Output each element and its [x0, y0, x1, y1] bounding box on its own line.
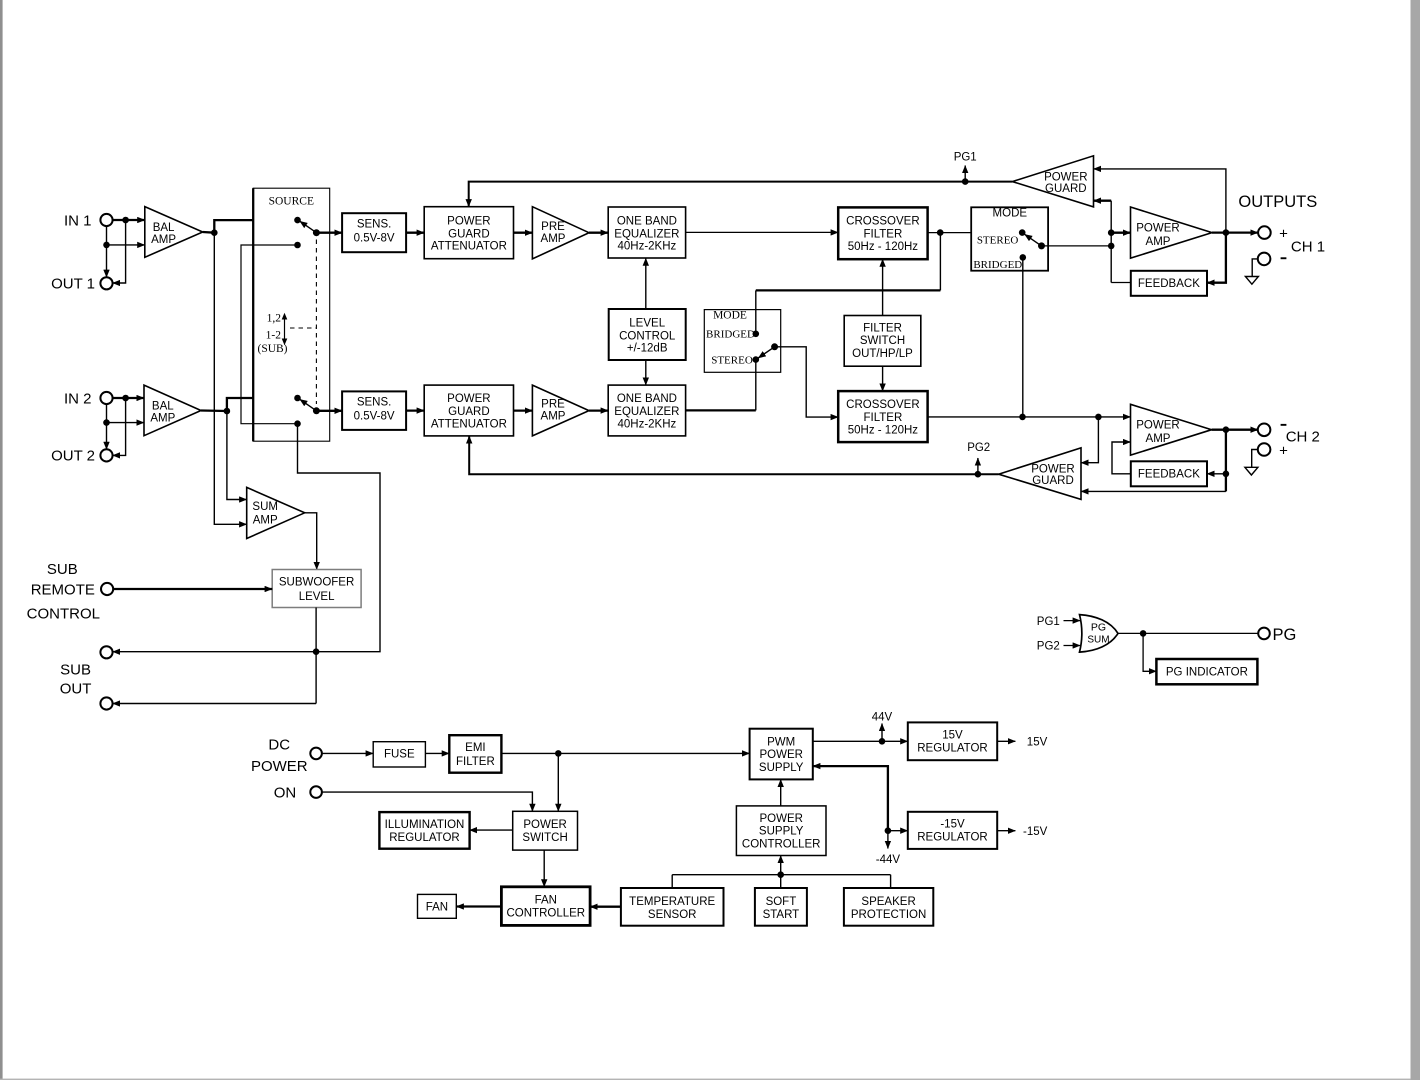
svg-text:OUT: OUT: [60, 681, 92, 698]
POWER SUPPLY CONTROLLER block: [736, 806, 826, 856]
wire filter switch to crossover 2: [882, 366, 884, 391]
vertical bus power amp 1 input: [1110, 201, 1112, 283]
label - CH2: [1281, 424, 1287, 426]
svg-text:MODE: MODE: [713, 310, 747, 322]
svg-text:AMP: AMP: [541, 233, 566, 245]
svg-text:AMP: AMP: [541, 411, 566, 423]
LEVEL CONTROL block: [609, 309, 686, 360]
svg-text:REMOTE: REMOTE: [31, 582, 95, 599]
MODE select box CH1: [971, 207, 1048, 270]
svg-text:15V: 15V: [1027, 737, 1048, 749]
svg-text:40Hz-2KHz: 40Hz-2KHz: [617, 418, 676, 430]
-44V tap arrow: [887, 831, 889, 849]
wire mode1 pivot to amp node: [1042, 245, 1112, 247]
op-amp PRE AMP 2: [532, 385, 589, 436]
POWER SWITCH block: [513, 811, 578, 850]
wire control bus to controller: [780, 856, 782, 875]
CROSSOVER FILTER CH1: [838, 207, 927, 259]
MODE select box CH2: [704, 310, 780, 373]
switch 2 contact position 1-2: [294, 420, 301, 427]
svg-text:ATTENUATOR: ATTENUATOR: [431, 241, 507, 253]
svg-text:BRIDGED: BRIDGED: [706, 329, 755, 341]
power guard CH1: [1012, 156, 1093, 207]
terminal ON: [310, 786, 322, 798]
wire IN1 to BAL AMP 1 upper input: [113, 219, 145, 221]
junction dot pa1 node upper: [1108, 229, 1115, 236]
wire subwoofer level output down: [315, 608, 317, 704]
wire power amp 2 output: [1212, 429, 1258, 431]
svg-text:FILTER: FILTER: [863, 322, 902, 334]
wire DC node to power switch: [557, 753, 559, 811]
terminal SUB OUT 1: [100, 646, 112, 658]
wire -15V output: [997, 830, 1015, 832]
wire power guard 1 to attenuator top (feedback): [469, 182, 1013, 207]
position arrow up-down: [284, 318, 286, 341]
terminal CH1 minus: [1258, 253, 1271, 266]
wire IN2 to BAL AMP 2 upper input: [113, 397, 144, 399]
wire PWM to 15V regulator: [813, 740, 908, 742]
wire crossover2 to power amp 2: [928, 416, 1131, 418]
svg-text:TEMPERATURE: TEMPERATURE: [629, 896, 715, 908]
junction dot 44V node: [879, 738, 886, 745]
svg-text:SUPPLY: SUPPLY: [759, 826, 804, 838]
wire BAL1 to source switch 1: [214, 220, 297, 233]
wire feedback2 to power amp 2 lower input: [1112, 442, 1131, 474]
power amp CH1: [1131, 207, 1213, 258]
svg-text:POWER: POWER: [447, 215, 490, 227]
svg-text:REGULATOR: REGULATOR: [389, 832, 460, 844]
svg-text:+: +: [1279, 442, 1288, 459]
mode1 contact BRIDGED: [1020, 254, 1027, 261]
wire down to OUT2: [106, 423, 108, 450]
TEMPERATURE SENSOR block: [621, 888, 724, 926]
CROSSOVER FILTER CH2: [838, 391, 927, 442]
svg-text:POWER: POWER: [447, 393, 490, 405]
svg-text:PG2: PG2: [967, 442, 990, 454]
mode2 contact STEREO: [753, 356, 760, 363]
svg-text:POWER: POWER: [1031, 464, 1074, 476]
dashed gang link horizontal: [290, 327, 316, 329]
wire level control to equalizer 1: [645, 258, 647, 309]
junction dot output2: [1223, 426, 1230, 433]
wire FUSE to EMI FILTER: [425, 752, 449, 754]
ground CH2: [1245, 467, 1258, 475]
terminal CH2 plus: [1258, 443, 1271, 456]
svg-text:1-2: 1-2: [266, 329, 282, 341]
PG INDICATOR block: [1156, 659, 1257, 684]
svg-text:ONE BAND: ONE BAND: [617, 393, 677, 405]
wire EMI to PWM supply: [501, 752, 749, 754]
SPEAKER PROTECTION block: [844, 888, 933, 926]
junction dot PG1 tap: [962, 178, 969, 185]
wire power amp 1 output: [1212, 231, 1258, 233]
mode1 lever: [1025, 234, 1042, 246]
wire down to OUT1: [106, 245, 108, 277]
wire mode1 bridged down to ch2 line: [1022, 257, 1024, 417]
switch 1 contact position 1: [294, 217, 301, 224]
svg-text:POWER: POWER: [1136, 223, 1179, 235]
FILTER SWITCH block: [844, 316, 921, 367]
junction dot output1: [1223, 229, 1230, 236]
wire output1 down to feedback: [1207, 233, 1226, 283]
wire switch 2 to SENS CH2: [316, 410, 342, 412]
svg-text:SUPPLY: SUPPLY: [759, 762, 804, 774]
svg-text:1,2: 1,2: [267, 312, 282, 324]
junction dot PG2 tap: [975, 471, 982, 478]
junction dot BAL2 output: [224, 408, 231, 415]
wire into feedback 2: [1207, 473, 1226, 475]
FUSE block: [373, 742, 425, 767]
junction dot -44V node: [885, 827, 892, 834]
svg-text:SUM: SUM: [252, 501, 278, 513]
wire feedback1 to input node: [1111, 282, 1131, 284]
wire to BAL AMP 2 lower input: [107, 422, 145, 424]
svg-text:POWER: POWER: [251, 758, 308, 775]
SENS block CH1: [342, 213, 406, 252]
junction dot bridged tap ch2: [1019, 414, 1026, 421]
wire bus to speaker protection: [890, 875, 892, 888]
svg-text:PG INDICATOR: PG INDICATOR: [1166, 667, 1248, 679]
terminal IN2: [100, 392, 112, 404]
wire attenuator1 to pre amp: [514, 232, 533, 234]
svg-text:GUARD: GUARD: [1045, 183, 1087, 195]
wire -44V node to PWM return: [813, 766, 888, 831]
switch 2 lever: [300, 399, 317, 411]
wire bus to soft start: [780, 875, 782, 888]
control bus horizontal: [672, 874, 890, 876]
svg-text:MODE: MODE: [993, 208, 1028, 220]
wire 15V output: [997, 740, 1015, 742]
left page edge: [0, 0, 3, 1080]
PG2 tap arrow: [977, 458, 979, 474]
svg-text:CONTROL: CONTROL: [619, 330, 676, 342]
svg-text:0.5V-8V: 0.5V-8V: [354, 411, 395, 423]
svg-text:AMP: AMP: [253, 514, 278, 526]
wire equalizer 2 output: [686, 409, 756, 411]
EMI FILTER block: [449, 735, 501, 773]
svg-text:FAN: FAN: [426, 901, 448, 913]
wire BAL2 to SUM AMP upper input: [227, 411, 247, 500]
svg-text:CONTROLLER: CONTROLLER: [506, 908, 585, 920]
terminal IN1: [100, 214, 112, 226]
FAN block: [418, 894, 457, 918]
SOURCE selector box: [253, 188, 330, 441]
SENS block CH2: [342, 391, 406, 430]
svg-text:LEVEL: LEVEL: [299, 591, 335, 603]
svg-text:SWITCH: SWITCH: [522, 832, 567, 844]
wire switch 1 to SENS CH1: [316, 232, 342, 234]
svg-text:+: +: [1279, 226, 1288, 243]
svg-text:0.5V-8V: 0.5V-8V: [354, 233, 395, 245]
wire BAL AMP 2 output: [201, 409, 227, 412]
svg-text:PRE: PRE: [541, 221, 565, 233]
svg-text:OUTPUTS: OUTPUTS: [1238, 193, 1317, 211]
wire SENS1 to attenuator: [406, 232, 424, 234]
svg-text:FEEDBACK: FEEDBACK: [1138, 278, 1200, 290]
junction dot DC node: [555, 750, 562, 757]
wire BAL1 to SUM AMP lower input: [214, 233, 246, 525]
op-amp PRE AMP 1: [532, 207, 589, 259]
wire -44V node to -15V regulator: [888, 830, 908, 832]
svg-text:50Hz - 120Hz: 50Hz - 120Hz: [848, 241, 919, 253]
wire CH2 plus to ground: [1252, 450, 1258, 468]
svg-text:40Hz-2KHz: 40Hz-2KHz: [617, 241, 676, 253]
svg-text:POWER: POWER: [1136, 420, 1179, 432]
wire power guard 2 to attenuator bottom (feedback): [469, 436, 998, 474]
wire output1 to power guard upper input: [1094, 169, 1226, 233]
switch 1 pivot: [313, 229, 320, 236]
svg-text:GUARD: GUARD: [1032, 475, 1074, 487]
switch 2 contact position 1: [294, 395, 301, 402]
junction dot PG node: [1140, 630, 1147, 637]
svg-text:SOURCE: SOURCE: [269, 196, 314, 208]
44V tap arrow: [881, 724, 883, 742]
svg-text:(SUB): (SUB): [257, 343, 287, 355]
svg-text:PG1: PG1: [1037, 616, 1060, 628]
wire temperature sensor to fan controller: [590, 906, 621, 908]
-15V REGULATOR block: [908, 812, 997, 849]
wire output2 down: [1225, 430, 1227, 492]
wire sub contact to subwoofer node: [298, 424, 381, 652]
wire SUB REMOTE to subwoofer level: [113, 588, 272, 590]
svg-text:PRE: PRE: [541, 399, 565, 411]
switch 2 pivot: [313, 407, 320, 414]
svg-text:PG: PG: [1273, 626, 1297, 644]
svg-text:SENS.: SENS.: [357, 218, 392, 230]
terminal SUB OUT 2: [100, 697, 112, 709]
svg-text:15V: 15V: [942, 730, 963, 742]
svg-text:FILTER: FILTER: [864, 412, 903, 424]
bottom page edge: [0, 1079, 1420, 1080]
wire to PG indicator: [1143, 633, 1156, 671]
wire controller to PWM: [780, 779, 782, 806]
svg-text:STEREO: STEREO: [711, 355, 753, 367]
svg-text:SUM: SUM: [1087, 634, 1109, 645]
wire PG2 to gate: [1064, 645, 1081, 647]
svg-text:DC: DC: [268, 736, 290, 753]
ONE BAND EQUALIZER CH2: [608, 385, 685, 436]
power amp CH2: [1131, 404, 1212, 455]
wire ON to power switch: [322, 792, 532, 811]
svg-text:FAN: FAN: [535, 895, 557, 907]
svg-text:44V: 44V: [872, 711, 893, 723]
svg-text:BRIDGED: BRIDGED: [973, 259, 1022, 271]
junction dot IN1 split: [122, 217, 129, 224]
svg-text:POWER: POWER: [1044, 172, 1087, 184]
wire loop-through IN2 to OUT2: [113, 398, 126, 455]
svg-text:STEREO: STEREO: [977, 234, 1019, 246]
svg-text:REGULATOR: REGULATOR: [917, 743, 988, 755]
junction dot sub out node: [313, 648, 320, 655]
wire bridged2 to crossover1 output (horizontal): [756, 289, 941, 291]
wire filter switch to crossover 1: [882, 259, 884, 315]
svg-text:EMI: EMI: [465, 742, 485, 754]
svg-text:-15V: -15V: [940, 819, 965, 831]
svg-text:FILTER: FILTER: [864, 229, 903, 241]
dashed gang link vertical: [315, 240, 317, 405]
junction dot pa1 node lower: [1108, 243, 1115, 250]
wire PG1 to gate: [1064, 620, 1081, 622]
svg-text:SOFT: SOFT: [766, 896, 797, 908]
wire fan controller to fan: [456, 905, 501, 907]
SOFT START block: [755, 888, 807, 926]
op-amp SUM AMP: [247, 487, 305, 538]
svg-text:CH 1: CH 1: [1291, 239, 1325, 256]
svg-text:-15V: -15V: [1023, 826, 1048, 838]
svg-text:PG: PG: [1091, 621, 1106, 633]
junction dot control bus: [777, 871, 784, 878]
svg-text:FILTER: FILTER: [456, 756, 495, 768]
svg-text:PROTECTION: PROTECTION: [851, 909, 926, 921]
svg-text:CONTROLLER: CONTROLLER: [742, 838, 821, 850]
terminal CH2 minus: [1258, 424, 1271, 437]
wire node to power guard 1 lower input: [1094, 200, 1112, 202]
svg-text:SUB: SUB: [47, 561, 78, 578]
svg-text:START: START: [763, 909, 800, 921]
junction dot IN2 split: [122, 395, 129, 402]
terminal CH1 plus: [1258, 226, 1271, 239]
FEEDBACK block CH2: [1131, 461, 1207, 486]
svg-text:BAL: BAL: [152, 401, 174, 413]
wire SENS2 to attenuator: [406, 409, 424, 411]
junction dot IN1 lower: [103, 242, 110, 249]
wire equalizer1 to crossover: [686, 231, 839, 233]
wire bus to temperature sensor: [671, 875, 673, 888]
svg-text:POWER: POWER: [759, 749, 802, 761]
mode2 contact BRIDGED: [753, 331, 760, 338]
mode1 contact STEREO: [1019, 229, 1026, 236]
junction dot crossover1 output: [937, 229, 944, 236]
15V REGULATOR block: [908, 722, 997, 760]
svg-text:ON: ON: [274, 784, 297, 801]
wire SUM AMP to subwoofer level: [305, 513, 317, 570]
svg-text:IN 2: IN 2: [64, 390, 92, 407]
terminal OUT2: [100, 449, 112, 461]
SUBWOOFER LEVEL block: [272, 570, 361, 608]
svg-text:GUARD: GUARD: [448, 228, 490, 240]
wire node to power guard 2 upper input: [1081, 417, 1098, 463]
svg-text:EQUALIZER: EQUALIZER: [614, 228, 679, 240]
wire level control to equalizer 2: [645, 360, 647, 385]
OR gate PG SUM: [1080, 615, 1119, 653]
wire to BAL AMP 1 lower input: [107, 244, 145, 246]
mode2 pivot: [771, 343, 778, 350]
wire gate output to PG terminal: [1118, 632, 1258, 634]
FAN CONTROLLER block: [501, 887, 590, 926]
svg-text:CROSSOVER: CROSSOVER: [846, 399, 920, 411]
switch 1 contact position 1-2: [294, 242, 301, 249]
ground CH1: [1245, 277, 1258, 285]
terminal PG: [1258, 628, 1270, 640]
svg-text:OUT 2: OUT 2: [51, 448, 95, 465]
switch 1 lever: [300, 221, 317, 233]
wire power switch to illumination regulator: [470, 829, 513, 831]
POWER GUARD ATTENUATOR CH1: [424, 207, 513, 259]
wire bridged2 riser: [755, 290, 757, 333]
svg-text:LEVEL: LEVEL: [629, 317, 665, 329]
wire crossover1 to mode switch: [928, 232, 1023, 234]
terminal SUB REMOTE CONTROL: [101, 583, 113, 595]
svg-text:ATTENUATOR: ATTENUATOR: [431, 418, 507, 430]
svg-text:CONTROL: CONTROL: [27, 606, 100, 623]
POWER GUARD ATTENUATOR CH2: [424, 385, 513, 436]
svg-text:SPEAKER: SPEAKER: [861, 896, 915, 908]
svg-text:AMP: AMP: [151, 234, 176, 246]
wire stereo2 contact to equalizer 2 output: [755, 360, 757, 411]
wire IN1 down to lower node: [106, 226, 108, 245]
svg-text:PG2: PG2: [1037, 641, 1060, 653]
svg-text:AMP: AMP: [1146, 433, 1171, 445]
svg-text:50Hz - 120Hz: 50Hz - 120Hz: [848, 424, 919, 436]
svg-text:SWITCH: SWITCH: [860, 335, 905, 347]
svg-text:EQUALIZER: EQUALIZER: [614, 406, 679, 418]
junction dot feedback2 tap: [1223, 471, 1230, 478]
wire to SUB OUT 2: [113, 703, 317, 705]
wire into power amp 1: [1111, 232, 1130, 234]
PWM POWER SUPPLY block: [750, 729, 813, 780]
terminal DC POWER: [310, 748, 322, 760]
svg-text:SUBWOOFER: SUBWOOFER: [279, 577, 354, 589]
svg-text:FUSE: FUSE: [384, 749, 415, 761]
svg-text:+/-12dB: +/-12dB: [627, 343, 668, 355]
wire loop-through IN1 to OUT1: [113, 220, 126, 283]
wire IN2 down to lower node: [106, 404, 108, 423]
wire pre amp 1 to equalizer: [589, 232, 608, 234]
junction dot pa2 input node: [1095, 414, 1102, 421]
svg-text:CROSSOVER: CROSSOVER: [846, 216, 920, 228]
power guard CH2: [999, 448, 1081, 500]
FEEDBACK block CH1: [1131, 271, 1207, 296]
junction dot BAL1 output: [211, 229, 218, 236]
svg-text:REGULATOR: REGULATOR: [917, 832, 988, 844]
op-amp BAL AMP 2: [144, 385, 201, 436]
wire attenuator2 to pre amp: [514, 409, 533, 411]
svg-text:-44V: -44V: [876, 854, 901, 866]
svg-text:PG1: PG1: [954, 151, 977, 163]
wire pre amp 2 to equalizer: [589, 409, 608, 411]
op-amp BAL AMP 1: [145, 207, 203, 258]
terminal OUT1: [100, 277, 112, 289]
svg-text:AMP: AMP: [1146, 236, 1171, 248]
svg-text:FEEDBACK: FEEDBACK: [1138, 469, 1200, 481]
svg-text:AMP: AMP: [150, 413, 175, 425]
svg-text:ILLUMINATION: ILLUMINATION: [385, 819, 465, 831]
svg-text:BAL: BAL: [153, 222, 175, 234]
svg-text:OUT 1: OUT 1: [51, 276, 95, 293]
svg-text:IN 1: IN 1: [64, 212, 92, 229]
svg-text:SENS.: SENS.: [357, 396, 392, 408]
label - CH1: [1281, 257, 1287, 259]
wire power switch to fan controller: [543, 850, 545, 887]
svg-text:OUT/HP/LP: OUT/HP/LP: [852, 348, 913, 360]
mode2 lever: [758, 347, 774, 358]
wire mode2 pivot to crossover 2: [775, 347, 839, 417]
mode1 pivot: [1038, 242, 1045, 249]
svg-text:GUARD: GUARD: [448, 406, 490, 418]
wire to power guard 2 lower input: [1081, 490, 1226, 492]
wire BAL AMP 1 output: [203, 231, 215, 234]
ILLUMINATION REGULATOR block: [379, 812, 469, 849]
PG1 tap arrow: [964, 166, 966, 182]
wire CH1 minus to ground: [1252, 259, 1258, 277]
svg-text:PWM: PWM: [767, 736, 795, 748]
ONE BAND EQUALIZER CH1: [608, 207, 685, 258]
wire switch1 sub contact loop: [241, 245, 298, 424]
junction dot IN2 lower: [103, 419, 110, 426]
svg-text:CH 2: CH 2: [1286, 429, 1320, 446]
wire to SUB OUT 1: [113, 651, 317, 653]
svg-text:ONE BAND: ONE BAND: [617, 215, 677, 227]
